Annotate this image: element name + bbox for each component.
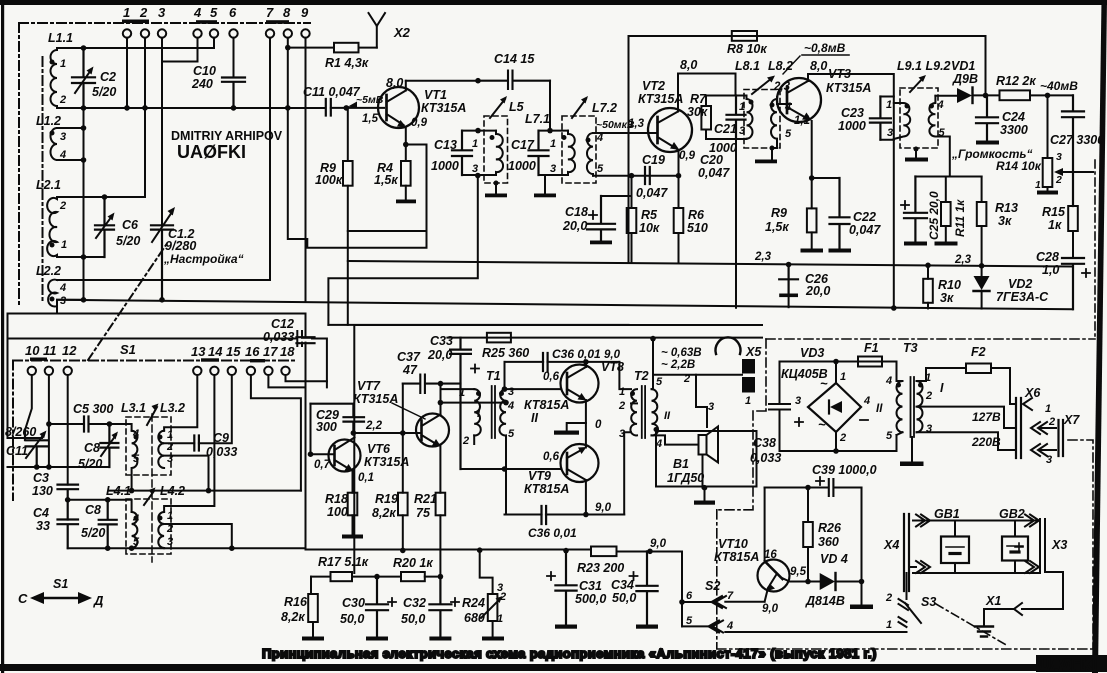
terminal numbers 1-9 xyxy=(123,5,309,20)
SEC_VT3 xyxy=(765,59,1104,340)
svg-text:S1: S1 xyxy=(120,342,136,357)
svg-text:0,9: 0,9 xyxy=(411,117,428,129)
svg-text:220В: 220В xyxy=(971,435,1001,449)
wire T2 pin2 stub xyxy=(631,402,637,404)
svg-text:~: ~ xyxy=(820,376,828,391)
svg-text:0,6: 0,6 xyxy=(543,371,560,383)
inductor L3.1 xyxy=(132,431,138,491)
inductor L8.1 xyxy=(706,96,753,140)
svg-text:С37: С37 xyxy=(397,350,421,364)
headphone jack X5 xyxy=(716,337,741,354)
svg-text:VT10: VT10 xyxy=(718,537,748,551)
wire T1 pin2 stub xyxy=(473,435,475,444)
pin labels L5 xyxy=(472,138,478,175)
switch bar 1-2 xyxy=(122,20,149,24)
S2 contact chevrons xyxy=(712,596,727,608)
svg-text:47: 47 xyxy=(402,363,418,377)
svg-text:11: 11 xyxy=(43,343,57,358)
svg-text:4: 4 xyxy=(132,428,139,440)
svg-text:II: II xyxy=(531,411,538,425)
svg-text:С11: С11 xyxy=(6,444,28,458)
wire L4.2 pin2 xyxy=(164,524,232,548)
wire terminal4 stub xyxy=(162,38,198,62)
wire S2 pole4 xyxy=(725,631,906,633)
inductor L3.2 xyxy=(158,431,164,468)
svg-text:L1.1: L1.1 xyxy=(48,31,73,45)
T3 winding I xyxy=(917,381,923,432)
dash link L3-L4 xyxy=(151,414,153,562)
trimmer C11 8/260 xyxy=(25,430,48,467)
frame bottom bar xyxy=(0,664,1107,671)
capacitor C27 xyxy=(1062,95,1084,206)
svg-text:1000: 1000 xyxy=(431,159,459,173)
svg-text:В1: В1 xyxy=(673,457,689,471)
svg-text:5/20: 5/20 xyxy=(81,526,105,540)
svg-text:2: 2 xyxy=(925,390,932,402)
pin labels L1.2 xyxy=(59,131,66,161)
svg-text:3: 3 xyxy=(508,386,514,398)
svg-text:1: 1 xyxy=(550,138,556,150)
svg-text:16: 16 xyxy=(764,549,777,561)
svg-text:8,0: 8,0 xyxy=(680,58,697,72)
wire L1.2 top xyxy=(57,127,84,129)
X6 contact arrows xyxy=(1023,398,1032,410)
resistor R18 100 xyxy=(348,493,358,516)
svg-text:КТ815А: КТ815А xyxy=(524,398,569,412)
emitter common node xyxy=(585,423,587,446)
tank1 bottom rail xyxy=(462,174,496,176)
resistor R23 200 xyxy=(591,547,617,557)
transistor VT2 xyxy=(648,108,692,152)
resistor R16 8,2к xyxy=(311,577,313,594)
labels Громкость R14 10к xyxy=(951,147,1042,173)
battery rail top xyxy=(913,520,1040,522)
capacitor C23 xyxy=(870,97,891,140)
svg-text:С30: С30 xyxy=(342,596,365,610)
svg-text:33: 33 xyxy=(36,519,50,533)
svg-text:R14 10к: R14 10к xyxy=(996,159,1042,173)
svg-text:3к: 3к xyxy=(940,291,954,305)
svg-text:4: 4 xyxy=(937,99,944,111)
svg-text:1: 1 xyxy=(459,387,465,399)
wire VT9 base row xyxy=(461,468,562,470)
junction dots on base wire xyxy=(124,105,130,111)
resistor R15 1к xyxy=(1068,206,1078,231)
svg-text:R11 1к: R11 1к xyxy=(953,199,967,237)
junction dot base node xyxy=(344,105,350,111)
svg-text:II: II xyxy=(876,403,883,415)
svg-text:3: 3 xyxy=(1056,151,1062,163)
svg-text:КТ815А: КТ815А xyxy=(524,482,569,496)
svg-text:R17 5.1к: R17 5.1к xyxy=(318,555,369,569)
wire T3 pin2 to X6 pin2 127V xyxy=(917,407,1017,428)
svg-text:4: 4 xyxy=(59,282,66,294)
capacitor C29 xyxy=(311,404,365,433)
wire terminal9 stub down xyxy=(305,38,307,301)
inductor L4.2 xyxy=(158,512,164,548)
capacitor C19 xyxy=(645,167,650,184)
amp box top edge / supply bus y337.6 xyxy=(354,325,762,573)
svg-text:0,9: 0,9 xyxy=(679,150,696,162)
svg-text:2,2: 2,2 xyxy=(365,420,383,432)
inductor L2.2 xyxy=(48,280,57,308)
svg-text:КТ815А: КТ815А xyxy=(714,550,759,564)
svg-text:0,033: 0,033 xyxy=(263,330,294,344)
inductor L8.2 xyxy=(771,97,777,142)
dash-dot X7 link xyxy=(1068,440,1093,649)
dash-dot tuning link line xyxy=(88,242,168,360)
svg-text:9,0: 9,0 xyxy=(595,502,612,514)
capacitor C37 47 xyxy=(403,375,461,394)
svg-text:С31: С31 xyxy=(579,579,602,593)
svg-text:2: 2 xyxy=(1048,416,1055,428)
terminal numbers 10-18 xyxy=(25,342,295,359)
svg-text:С: С xyxy=(18,591,28,606)
wire C36u left drop xyxy=(504,362,506,389)
wire left drop to S1 trimmer xyxy=(8,307,58,438)
svg-text:0,6: 0,6 xyxy=(543,451,560,463)
wire S2 pole7 to VT10 emitter xyxy=(725,601,764,603)
trimmer R24 680 xyxy=(480,550,493,594)
svg-text:1,0: 1,0 xyxy=(1042,263,1059,277)
dashed box L5 xyxy=(484,116,508,183)
capacitor C9 xyxy=(194,436,199,451)
bus y324.9 xyxy=(328,324,628,326)
wire L1.2 bottom xyxy=(57,159,84,161)
frame right bar xyxy=(1092,0,1107,673)
wire terminal2 stub down to L2.1 top xyxy=(144,38,146,197)
dash-dot power box left xyxy=(717,339,766,510)
svg-text:0,7: 0,7 xyxy=(314,459,331,471)
svg-text:R12 2к: R12 2к xyxy=(996,74,1036,88)
junction dot VT7 collector xyxy=(438,381,444,387)
svg-text:DMITRIY ARHIPOV: DMITRIY ARHIPOV xyxy=(171,129,283,143)
svg-text:0,033: 0,033 xyxy=(206,445,237,459)
junction dot x83.5 bus xyxy=(81,297,87,303)
wire terminal8 stub xyxy=(287,38,289,239)
svg-text:С24: С24 xyxy=(1002,110,1025,124)
wire t16 路 xyxy=(251,375,301,491)
svg-text:Х1: Х1 xyxy=(985,594,1001,608)
svg-text:F1: F1 xyxy=(864,341,879,355)
svg-text:5: 5 xyxy=(686,615,693,627)
svg-text:300: 300 xyxy=(316,420,337,434)
capacitor C21 xyxy=(727,96,746,140)
svg-text:С22: С22 xyxy=(853,210,876,224)
capacitor C11 xyxy=(326,99,331,116)
antenna X2 xyxy=(369,13,386,48)
wire C9 to t15 xyxy=(199,375,232,443)
trimmer C8 lower xyxy=(99,500,117,548)
svg-text:9,0: 9,0 xyxy=(650,538,667,550)
svg-text:С20: С20 xyxy=(700,153,723,167)
svg-text:С28: С28 xyxy=(1036,250,1059,264)
svg-text:3: 3 xyxy=(708,401,714,413)
diode VD2 xyxy=(981,266,983,276)
inductor L4.1 xyxy=(132,512,138,548)
svg-text:10: 10 xyxy=(25,343,40,358)
svg-text:5: 5 xyxy=(210,5,218,20)
svg-text:5/20: 5/20 xyxy=(78,457,102,471)
svg-text:С34: С34 xyxy=(611,578,634,592)
wire L9.2 pin4 to VD1 xyxy=(935,95,957,97)
pin labels L2.1 xyxy=(59,200,67,251)
junction dots busB right xyxy=(979,263,985,269)
svg-text:1: 1 xyxy=(1045,403,1051,415)
wire tank1 bottom drop xyxy=(475,173,481,179)
svg-text:12: 12 xyxy=(62,343,77,358)
connector X4 xyxy=(904,514,909,591)
dash-dot VT10 box xyxy=(717,510,1093,649)
svg-text:2: 2 xyxy=(59,94,66,106)
svg-text:1ГД50: 1ГД50 xyxy=(667,471,704,485)
capacitor C31 500,0 xyxy=(555,551,576,624)
wire t11 col xyxy=(48,375,50,467)
switch bar 10-11 xyxy=(30,358,47,361)
svg-text:R9: R9 xyxy=(771,206,787,220)
svg-text:2: 2 xyxy=(139,5,148,20)
svg-text:5: 5 xyxy=(785,128,792,140)
svg-text:С25 20,0: С25 20,0 xyxy=(927,191,941,240)
wire T2 pin4 to X5 low xyxy=(652,435,699,444)
svg-text:F2: F2 xyxy=(971,345,986,359)
wire T2 pin5 to bus xyxy=(652,339,654,390)
inductor L1.1 xyxy=(51,48,58,108)
SEC_AMP xyxy=(268,325,762,641)
svg-text:R7: R7 xyxy=(690,92,707,106)
svg-text:13: 13 xyxy=(191,344,206,359)
svg-text:500,0: 500,0 xyxy=(575,592,606,606)
svg-text:„Настройка“: „Настройка“ xyxy=(163,252,244,266)
switch bar 4-5 xyxy=(196,20,217,24)
svg-text:VT2: VT2 xyxy=(642,79,665,93)
svg-text:UAØFKI: UAØFKI xyxy=(177,142,246,162)
svg-text:R16: R16 xyxy=(284,595,308,609)
svg-text:С14 15: С14 15 xyxy=(494,52,535,66)
top rail R8 xyxy=(629,36,986,262)
connector X3 xyxy=(1040,519,1045,572)
transistor VT10 xyxy=(758,560,790,592)
rail y424 C5 row xyxy=(49,424,132,431)
resistor R1 xyxy=(334,43,359,53)
bridge box left leg C38 xyxy=(769,362,897,452)
capacitor C10 xyxy=(222,78,245,108)
svg-text:2: 2 xyxy=(462,435,469,447)
inductor L7.1 xyxy=(568,131,575,175)
svg-text:0,047: 0,047 xyxy=(849,223,881,237)
SEC_PWR xyxy=(656,339,1095,649)
wire L7.2 pin5 row xyxy=(593,175,679,177)
ground under C18 xyxy=(590,241,612,245)
svg-text:20,0: 20,0 xyxy=(562,219,587,233)
svg-text:7: 7 xyxy=(727,590,734,602)
svg-text:R24: R24 xyxy=(462,596,485,610)
wire L3.2 pin3 down xyxy=(164,456,208,491)
label VD1 Д9В xyxy=(951,59,978,86)
svg-text:VT7: VT7 xyxy=(357,379,381,393)
svg-text:VT9: VT9 xyxy=(528,469,551,483)
speaker B1 xyxy=(696,375,707,427)
wire top rail y48 xyxy=(57,47,214,49)
svg-text:Х5: Х5 xyxy=(745,345,762,359)
svg-text:S3: S3 xyxy=(921,595,936,609)
svg-text:3: 3 xyxy=(60,295,66,307)
svg-text:3: 3 xyxy=(550,163,556,175)
svg-text:8,2к: 8,2к xyxy=(281,610,305,624)
tank4 box rails xyxy=(880,97,893,140)
capacitor C13 xyxy=(452,131,472,175)
svg-text:75: 75 xyxy=(416,506,431,520)
switch S3 xyxy=(906,573,908,599)
svg-text:С4: С4 xyxy=(33,506,49,520)
svg-text:С12: С12 xyxy=(271,317,294,331)
svg-text:VT6: VT6 xyxy=(367,442,391,456)
svg-text:0,047: 0,047 xyxy=(698,166,730,180)
bottom rail y548 xyxy=(68,547,306,549)
svg-text:5: 5 xyxy=(886,430,893,442)
resistor R13 3к xyxy=(981,177,983,203)
wire VT1 emitter feedback loop xyxy=(288,145,427,248)
svg-text:0,047: 0,047 xyxy=(636,186,668,200)
capacitor C4 33 xyxy=(58,520,79,549)
switch bar 16 xyxy=(250,359,265,362)
svg-text:VT1: VT1 xyxy=(424,88,447,102)
capacitor C6 variable xyxy=(95,197,114,257)
S2 switch xyxy=(681,553,683,627)
svg-text:Т1: Т1 xyxy=(486,369,501,383)
svg-text:4: 4 xyxy=(863,395,870,407)
svg-text:1: 1 xyxy=(886,619,892,631)
svg-text:~0,8мВ: ~0,8мВ xyxy=(804,41,846,55)
svg-text:L7.2: L7.2 xyxy=(592,101,617,115)
svg-text:4: 4 xyxy=(885,375,892,387)
svg-text:2: 2 xyxy=(618,400,625,412)
switch arrow L7.2 xyxy=(572,99,586,118)
svg-text:R20 1к: R20 1к xyxy=(393,556,433,570)
svg-text:С27 3300: С27 3300 xyxy=(1050,133,1104,147)
svg-text:VT8: VT8 xyxy=(601,360,624,374)
inductor L7.2 xyxy=(587,133,593,176)
svg-text:L7.1: L7.1 xyxy=(525,112,550,126)
svg-text:S1: S1 xyxy=(53,577,68,591)
svg-text:L2.2: L2.2 xyxy=(36,264,61,278)
pin labels L7.2 xyxy=(596,132,604,175)
svg-text:1: 1 xyxy=(840,371,846,383)
transistor VT7 xyxy=(416,414,449,447)
fuse F2 xyxy=(917,368,967,381)
wire t18 xyxy=(286,375,327,381)
svg-text:С38: С38 xyxy=(753,436,776,450)
svg-text:L8.1: L8.1 xyxy=(735,59,760,73)
B1 X5 box xyxy=(656,431,757,487)
svg-text:8: 8 xyxy=(283,5,291,20)
svg-text:1,5к: 1,5к xyxy=(765,220,789,234)
svg-text:2,3: 2,3 xyxy=(954,254,972,266)
svg-text:2: 2 xyxy=(839,432,846,444)
pin labels L3.1 xyxy=(132,428,140,465)
svg-text:2,3: 2,3 xyxy=(754,251,772,263)
svg-text:С5 300: С5 300 xyxy=(73,402,113,416)
capacitor C36 upper xyxy=(543,353,548,371)
svg-text:8/260: 8/260 xyxy=(5,425,36,439)
svg-text:R18: R18 xyxy=(325,492,348,506)
inductor L9.1 xyxy=(894,103,910,139)
svg-text:I: I xyxy=(940,381,944,395)
svg-text:С19: С19 xyxy=(642,153,665,167)
wire L1.1 bottom rail y108 xyxy=(57,107,325,109)
svg-text:3300: 3300 xyxy=(1000,123,1028,137)
wire T3 pin3 to X6 pin3 220V xyxy=(917,432,1017,450)
terminal circles 1-9 xyxy=(123,29,310,37)
svg-text:1,3: 1,3 xyxy=(628,118,645,130)
capacitor C12 xyxy=(8,331,327,387)
supply bus into amp y337.6 xyxy=(447,337,762,339)
ground under L5 box xyxy=(494,181,499,186)
wire vertical x83.5 xyxy=(83,108,85,300)
capacitor C18 xyxy=(587,196,615,240)
wire t14 to L4.2 pin1 xyxy=(164,375,214,512)
wire terminal6 stub to C10 xyxy=(233,38,235,78)
rail y490.6 xyxy=(109,490,301,492)
switch arrow L5 xyxy=(490,99,505,118)
svg-text:L2.1: L2.1 xyxy=(36,178,61,192)
svg-text:UA0FKI: UA0FKI xyxy=(1039,657,1097,673)
svg-text:3: 3 xyxy=(167,536,173,548)
svg-text:1: 1 xyxy=(619,386,625,398)
capacitor C28 xyxy=(1062,258,1084,309)
inductor L9.2 xyxy=(929,96,950,177)
frame top bar xyxy=(0,0,1107,5)
svg-text:680: 680 xyxy=(464,611,485,625)
pin labels L9.2 xyxy=(937,99,946,139)
dashed box L8.2 xyxy=(744,90,780,149)
svg-text:9/280: 9/280 xyxy=(165,239,196,253)
battery rail bottom xyxy=(913,572,1040,574)
junction dot R14 top xyxy=(1045,93,1051,99)
resistor R26 360 xyxy=(807,547,809,582)
svg-text:VD2: VD2 xyxy=(1008,277,1032,291)
wire VD4 right riser xyxy=(861,488,863,582)
capacitor C25 xyxy=(904,177,927,242)
svg-text:4: 4 xyxy=(193,5,202,20)
svg-text:1: 1 xyxy=(497,613,503,625)
wire to X5 xyxy=(653,374,742,376)
capacitor C3 130 xyxy=(58,485,79,520)
svg-text:0,033: 0,033 xyxy=(750,451,781,465)
inductor T2 winding II xyxy=(652,389,659,435)
resistor R12 2к xyxy=(1000,90,1031,100)
svg-text:18: 18 xyxy=(280,344,295,359)
svg-text:17: 17 xyxy=(263,344,278,359)
svg-text:VD3: VD3 xyxy=(800,346,824,360)
svg-text:1: 1 xyxy=(167,510,173,522)
svg-text:6: 6 xyxy=(229,5,237,20)
capacitor C12 in t9 column xyxy=(297,337,315,343)
svg-text:VD 4: VD 4 xyxy=(820,552,848,566)
VT2 collector rail xyxy=(678,74,736,96)
resistor R6 510 xyxy=(676,173,682,179)
junction dots C2 xyxy=(81,45,87,51)
svg-text:R6: R6 xyxy=(688,208,705,222)
svg-text:С32: С32 xyxy=(403,596,426,610)
svg-text:1000: 1000 xyxy=(838,119,866,133)
svg-text:127В: 127В xyxy=(972,410,1001,424)
resistor R9 100к xyxy=(347,108,349,161)
svg-text:15: 15 xyxy=(226,344,241,359)
svg-text:L1.2: L1.2 xyxy=(36,114,61,128)
svg-text:С36 0,01: С36 0,01 xyxy=(552,347,601,361)
capacitor C17 xyxy=(529,131,549,175)
